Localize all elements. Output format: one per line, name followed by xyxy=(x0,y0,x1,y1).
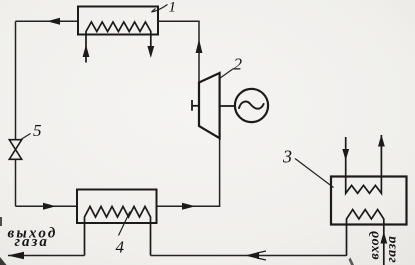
leader for label 1 xyxy=(152,5,168,13)
wire: left vertical below valve xyxy=(15,159,17,206)
arrow up (gas inlet) xyxy=(380,232,387,244)
HX3 top coil with risers xyxy=(346,135,382,193)
heat exchanger 4 (box) xyxy=(77,190,157,224)
scan smudge left edge xyxy=(0,217,2,226)
arrow (flow right) into HX4 xyxy=(43,203,56,210)
arrow up on HX3 top-right riser xyxy=(378,135,385,147)
arrow (gas out, left) xyxy=(8,252,25,259)
svg-text:3: 3 xyxy=(282,147,292,167)
arrow down on HX3 top-left riser xyxy=(342,149,349,161)
generator G1 (circle) xyxy=(235,89,268,122)
scan smudge bottom-left corner xyxy=(0,257,7,265)
shaft right to generator xyxy=(220,105,235,107)
svg-text:5: 5 xyxy=(33,121,42,140)
svg-text:газа: газа xyxy=(15,234,49,250)
arrow (flow right) on HX4 outlet wire xyxy=(182,203,196,210)
valve 5 xyxy=(9,140,21,160)
svg-text:4: 4 xyxy=(116,238,125,257)
HX4 coil zigzag with stubs xyxy=(85,207,151,256)
turbine 2 (trapezoid) xyxy=(199,73,220,138)
scan smudge bottom near gas inlet xyxy=(349,258,355,265)
arrow up on riser xyxy=(196,39,203,53)
heat exchanger 1 (box) xyxy=(78,7,158,35)
svg-text:вход: вход xyxy=(368,230,383,259)
leader for label 2 xyxy=(220,69,234,79)
wire: HX1 outlet to left corner xyxy=(16,20,79,22)
svg-text:2: 2 xyxy=(234,55,243,74)
svg-text:1: 1 xyxy=(169,0,177,16)
leader for label 4 xyxy=(119,212,131,236)
arrow down on HX1 right water stub xyxy=(147,46,154,58)
leader for label 5 xyxy=(21,134,31,140)
svg-text:газа: газа xyxy=(385,235,400,262)
heat exchanger 3 (box) xyxy=(331,177,407,225)
sine symbol inside generator xyxy=(239,102,264,109)
wire: turbine exhaust down and to HX4 right xyxy=(157,138,220,206)
arrow (flow left) on top-left wire xyxy=(47,18,60,25)
arrow up on HX1 left water stub xyxy=(83,45,90,58)
wire: left vertical above valve xyxy=(15,21,17,140)
HX3 bottom coil with down pipes xyxy=(347,210,384,265)
arrow (flow left) on HX3 to HX4 gas line xyxy=(245,252,259,259)
gas outlet line (bottom left) xyxy=(8,255,85,257)
wire: HX1 right to turbine riser xyxy=(158,21,199,82)
gas line from HX3 to HX4 (bottom right segment) xyxy=(151,255,347,257)
leader for label 3 xyxy=(295,159,334,188)
HX1 coil zigzag with stubs xyxy=(86,22,151,63)
wire: valve to HX4 inlet xyxy=(16,205,78,207)
shaft left with crossbar xyxy=(192,105,199,107)
